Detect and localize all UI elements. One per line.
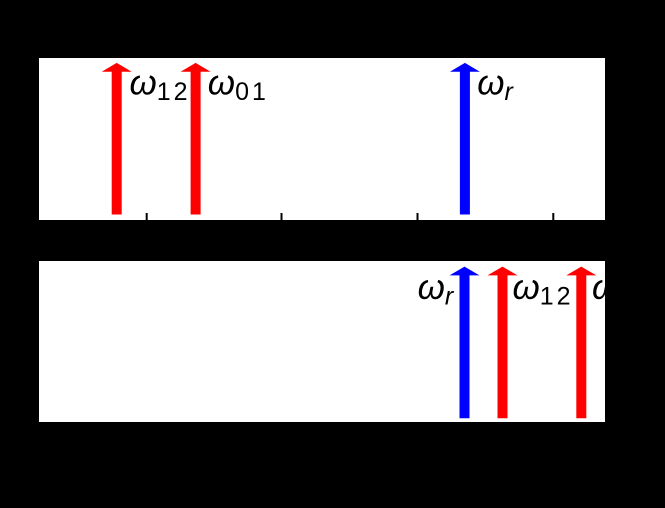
red arrow ω12 (bottom axes)	[488, 267, 518, 419]
svg-text:ω12: ω12	[513, 268, 574, 311]
red arrow ω01 (bottom axes)	[566, 267, 596, 419]
svg-text:ω12: ω12	[130, 64, 191, 107]
x tick 3	[417, 213, 419, 220]
blue arrow ωr (top axes)	[450, 63, 480, 215]
red arrow ω01 (top axes)	[181, 63, 211, 215]
svg-text:ω01: ω01	[208, 64, 269, 107]
x tick 4	[552, 213, 554, 220]
x tick 2	[281, 213, 283, 220]
svg-text:ω01: ω01	[592, 268, 605, 311]
top axes (pump spectrum, qubit drive)	[39, 58, 605, 220]
bottom axes (spectrum after shift, readout)	[39, 261, 605, 422]
svg-text:ωr: ωr	[418, 268, 455, 311]
x tick 1	[146, 213, 148, 220]
red arrow ω12 (top axes)	[102, 63, 132, 215]
blue arrow ωr (bottom axes)	[450, 267, 480, 419]
svg-text:ωr: ωr	[477, 64, 514, 107]
